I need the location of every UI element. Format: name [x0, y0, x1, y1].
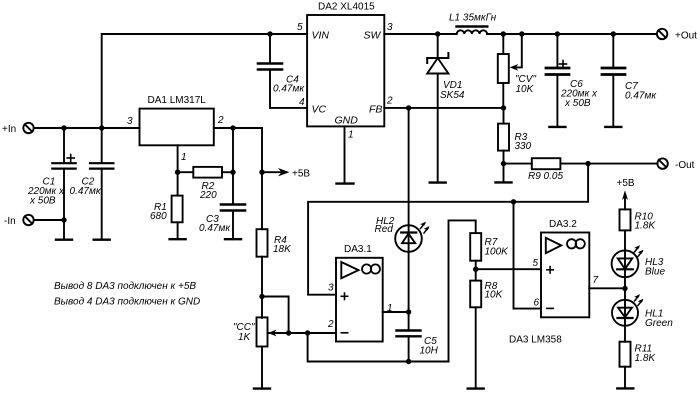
node R4 bottom: [259, 294, 264, 299]
svg-text:L1 35мкГн: L1 35мкГн: [449, 13, 497, 24]
opamp triangle DA3.2: [546, 238, 561, 253]
svg-text:18K: 18K: [273, 244, 292, 255]
resistor R10 1.8K: [620, 209, 631, 230]
plus sign DA3.1: [341, 293, 347, 299]
label C7 value: [625, 81, 657, 102]
ground R1: [170, 238, 186, 240]
svg-text:100K: 100K: [485, 247, 510, 258]
svg-text:GND: GND: [335, 115, 359, 127]
node FB R3 junction: [501, 105, 506, 110]
node sense to pin6: [511, 199, 516, 204]
svg-text:2: 2: [386, 96, 393, 107]
minus sign DA3.2: [547, 307, 553, 309]
wire +5B arrow up: [622, 190, 628, 209]
label R2 220: [199, 181, 217, 201]
svg-text:220: 220: [199, 190, 217, 201]
wire R11 to ground: [624, 367, 626, 389]
svg-text:1: 1: [181, 152, 187, 163]
svg-text:5: 5: [533, 258, 539, 269]
label C3 value: [199, 214, 231, 234]
svg-text:DA2 XL4015: DA2 XL4015: [318, 2, 375, 13]
capacitor C4 0.47мк: [258, 34, 307, 108]
label C6 value: [560, 79, 598, 109]
node CC wiper junction: [286, 330, 291, 335]
svg-text:0.47мк: 0.47мк: [625, 91, 657, 102]
node C1 top junction: [61, 125, 66, 130]
LED HL1 Green: [612, 300, 638, 326]
svg-text:+5B: +5B: [292, 169, 310, 180]
resistor R7 100K: [470, 233, 481, 261]
ground R8: [468, 387, 484, 389]
svg-text:680: 680: [150, 211, 167, 222]
svg-text:DA3.1: DA3.1: [344, 244, 372, 255]
potentiometer CV 10K: [498, 34, 522, 108]
wire DA1 pin1 down: [177, 145, 179, 195]
node CV top: [501, 31, 506, 36]
wire SW rail right: [487, 33, 657, 35]
svg-text:330: 330: [515, 141, 532, 152]
minus sign DA3.1: [341, 332, 347, 334]
svg-text:+5B: +5B: [617, 178, 635, 189]
LED HL1 emission arrows: [634, 294, 643, 305]
svg-text:1: 1: [348, 130, 354, 141]
svg-text:3: 3: [127, 116, 133, 127]
node C7 top: [611, 31, 616, 36]
op-amp DA1 box LM317L: [140, 109, 214, 146]
svg-text:Вывод 4 DA3 подключен к GND: Вывод 4 DA3 подключен к GND: [54, 297, 200, 308]
svg-text:1.8K: 1.8K: [635, 221, 657, 232]
svg-text:DA3 LM358: DA3 LM358: [509, 335, 562, 346]
label HL2 Red: [375, 216, 395, 235]
node FB branch HL2: [406, 105, 411, 110]
svg-text:FB: FB: [369, 104, 382, 116]
wire pin2 DA3.1: [268, 332, 337, 334]
svg-text:Вывод 8 DA3 подключен к +5В: Вывод 8 DA3 подключен к +5В: [54, 281, 196, 292]
node pin1 R2 junction: [175, 170, 180, 175]
node pin2 branch: [230, 125, 235, 130]
label R11 1.8K: [635, 344, 657, 365]
infinity symbol DA3.2: [567, 239, 585, 248]
wire R7 top bracket: [449, 220, 476, 361]
resistor R3 330: [498, 108, 509, 164]
svg-text:+Out: +Out: [675, 31, 697, 42]
wire FB to HL2: [408, 108, 410, 312]
resistor R9 0.05: [532, 158, 561, 169]
svg-text:Blue: Blue: [645, 267, 665, 278]
ground R11: [617, 387, 633, 389]
LED HL3 Blue: [612, 250, 639, 277]
LED HL3 emission arrows: [634, 245, 643, 256]
capacitor C6 220мк: [546, 34, 569, 127]
svg-text:+In: +In: [2, 124, 16, 135]
svg-text:0.47мк: 0.47мк: [199, 223, 231, 234]
label C1 value: [27, 177, 65, 207]
svg-text:-Out: -Out: [675, 160, 695, 171]
potentiometer CC 1K: [257, 297, 289, 389]
capacitor C1: [52, 128, 75, 240]
label R3 330: [515, 132, 532, 152]
label CV 10K: [515, 74, 536, 95]
plus sign DA3.2: [547, 267, 553, 273]
terminal -In: [23, 215, 33, 225]
label HL3 Blue: [645, 257, 665, 278]
svg-text:3: 3: [387, 22, 393, 33]
wire +5B arrow: [262, 168, 290, 176]
wire pin2 branch down to R2/C3: [232, 128, 234, 204]
label R10 1.8K: [635, 212, 657, 232]
node pin2 C5 branch: [305, 330, 310, 335]
svg-text:DA3.2: DA3.2: [549, 219, 577, 230]
wire R7-R8: [475, 261, 477, 281]
node C6 top: [555, 31, 560, 36]
diode VD1 SK54: [427, 34, 448, 183]
node R2 right junction: [230, 170, 235, 175]
wire pin1 DA3.1 out: [383, 311, 409, 313]
wire pin7 node to HL1: [624, 289, 626, 342]
ground C2: [94, 238, 110, 240]
label R1 680: [150, 202, 167, 222]
terminal +In: [23, 123, 33, 133]
node pin1 C5 top: [406, 309, 411, 314]
terminal +Out: [657, 29, 667, 39]
wire DA1 pin2 out: [214, 128, 262, 172]
wire DA2 GND pin1: [344, 126, 346, 183]
ground C7: [605, 126, 621, 128]
ground DA2 pin1: [337, 182, 354, 184]
opamp triangle DA3.1: [341, 262, 358, 278]
wire R3 to ground: [503, 164, 505, 183]
op-amp DA2 box XL4015: [307, 15, 384, 126]
capacitor C3 0.47мк: [221, 205, 245, 240]
ground C6: [549, 126, 565, 128]
ground CC pot: [254, 387, 270, 389]
svg-text:0.47мк: 0.47мк: [70, 186, 102, 197]
svg-text:2: 2: [217, 115, 224, 126]
svg-text:10K: 10K: [485, 290, 504, 301]
node C2 top junction: [99, 125, 104, 130]
wire -Out rail right: [560, 163, 657, 165]
svg-text:R9 0.05: R9 0.05: [528, 171, 563, 182]
LED HL2 Red: [395, 225, 422, 252]
resistor R8 10K: [470, 281, 481, 308]
node -In/C1 junction: [61, 217, 66, 222]
infinity symbol DA3.1: [362, 264, 380, 273]
wire pin3 DA3.1: [308, 294, 336, 296]
svg-text:7: 7: [593, 275, 599, 286]
wire sense rail: [308, 164, 588, 295]
label R4 18K: [273, 235, 292, 255]
wire SW rail left: [384, 33, 456, 35]
node R7/R8 junction: [473, 267, 478, 272]
wire R4-CC bracket: [262, 297, 289, 334]
svg-text:10H: 10H: [420, 346, 439, 357]
wire -Out rail left: [504, 163, 532, 165]
wire sense to pin6 DA3.2: [514, 202, 542, 309]
svg-text:VIN: VIN: [312, 30, 330, 42]
svg-text:0.47мк: 0.47мк: [273, 84, 305, 95]
node pin7 LED junction: [622, 286, 627, 291]
wire R10 to HL3: [624, 230, 626, 288]
wire top VIN rail: [102, 34, 307, 128]
label HL1 Green: [645, 309, 673, 330]
svg-text:10K: 10K: [516, 84, 535, 95]
resistor R11 1.8K: [620, 342, 631, 367]
label VD1 SK54: [440, 80, 465, 101]
node +5B tap: [259, 170, 264, 175]
svg-text:1.8K: 1.8K: [635, 353, 657, 364]
label R8 10K: [485, 281, 504, 301]
capacitor C2: [90, 128, 113, 240]
label C4 value: [273, 75, 305, 95]
svg-text:6: 6: [534, 298, 540, 309]
wire -In to C1 line: [34, 219, 64, 221]
wire R8 to ground: [475, 307, 477, 388]
LED HL2 emission arrows: [420, 222, 429, 233]
label C5 10H: [420, 336, 439, 357]
svg-text:5: 5: [297, 22, 303, 33]
wire FB rail: [384, 107, 503, 109]
node -Out sense: [585, 161, 590, 166]
wire R7/R8 to pin5 DA3.2: [476, 268, 541, 270]
inductor L1 35мкГн: [457, 27, 488, 35]
capacitor C5 10H: [397, 312, 421, 362]
svg-text:Green: Green: [645, 318, 673, 329]
resistor R2 220: [178, 167, 233, 178]
op-amp DA3.1 box: [336, 258, 383, 342]
ground R3: [496, 181, 512, 183]
svg-text:3: 3: [328, 283, 334, 294]
wire +In rail: [34, 127, 140, 129]
svg-text:4: 4: [299, 97, 305, 108]
node C5 bottom: [406, 359, 411, 364]
ground VD1: [430, 181, 446, 183]
svg-text:2: 2: [327, 319, 334, 330]
svg-text:SK54: SK54: [440, 90, 465, 101]
svg-text:-In: -In: [4, 216, 16, 227]
node CV wiper top: [519, 31, 524, 36]
label C2 value: [70, 177, 102, 198]
node VD1 top: [435, 31, 440, 36]
svg-text:SW: SW: [364, 30, 382, 42]
ground C1: [56, 238, 72, 240]
resistor R4 18K: [257, 172, 268, 296]
node R3 bottom: [501, 161, 506, 166]
op-amp DA3.2 box: [541, 233, 589, 318]
svg-text:x 50В: x 50В: [564, 98, 591, 109]
label R7 100K: [485, 237, 510, 258]
wire pin2 down loop: [308, 333, 449, 362]
wire pin7 DA3.2 out: [589, 287, 625, 289]
terminal -Out: [657, 158, 667, 168]
svg-text:x 50В: x 50В: [29, 196, 56, 207]
svg-text:DA1 LM317L: DA1 LM317L: [148, 95, 207, 106]
node C4 top: [267, 31, 272, 36]
svg-text:VC: VC: [312, 104, 327, 116]
svg-text:1K: 1K: [238, 332, 252, 343]
label CC 1K: [233, 322, 255, 343]
svg-text:Red: Red: [375, 224, 394, 235]
capacitor C7 0.47мк: [602, 34, 625, 127]
ground C3: [225, 238, 241, 240]
resistor R1 680: [172, 196, 183, 240]
